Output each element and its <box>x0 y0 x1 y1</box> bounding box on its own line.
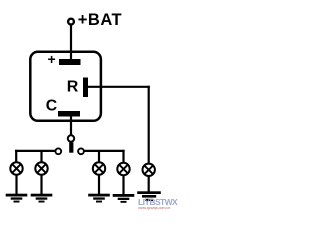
svg-text:C: C <box>46 98 57 115</box>
svg-text:+BAT: +BAT <box>78 11 122 29</box>
svg-text:R: R <box>67 78 79 95</box>
svg-text:+: + <box>48 51 56 67</box>
